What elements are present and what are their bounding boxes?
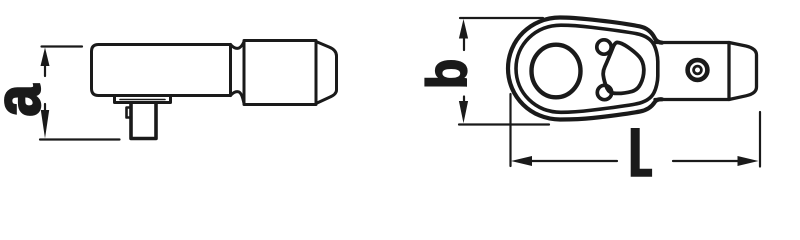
side view: end cap: [316, 42, 337, 104]
dimension L: right arrowhead: [738, 156, 759, 166]
dimension L: right extension line: [759, 112, 761, 167]
top view: small hole top: [597, 40, 611, 54]
label L: [631, 128, 652, 177]
dimension L: left arrowhead: [511, 156, 532, 166]
side view: square drive tang: [131, 103, 156, 139]
top view: pin hole inner: [694, 66, 702, 74]
dimension b: top extension line: [460, 17, 543, 19]
dimension L: left line segment: [519, 160, 617, 162]
svg-text:b: b: [417, 59, 478, 89]
top view: shank tip: [729, 43, 757, 100]
dimension b: down arrowhead: [459, 101, 468, 123]
side view: ratchet body: [92, 45, 231, 96]
dimension L: left extension line: [509, 94, 511, 166]
dimension a: upper dim line: [44, 58, 46, 76]
dimension a: down arrowhead: [41, 110, 49, 139]
dimension b: upper dim line: [463, 30, 465, 50]
top view: pin hole outer: [688, 60, 708, 80]
top view: head outer outline: [508, 18, 662, 120]
dimension b: bottom extension line: [459, 123, 549, 125]
top view: reverse lever (rounded triangle): [603, 42, 644, 93]
side view: neck: [231, 42, 245, 49]
dimension b: lower dim line: [463, 97, 465, 108]
dimension b: up arrowhead: [459, 19, 468, 39]
top view: shank: [655, 43, 729, 100]
dimension a: top extension line: [42, 45, 83, 47]
dimension a: lower dim line: [44, 104, 46, 118]
side view: mount step: [115, 96, 171, 103]
dimension L: right line segment: [673, 160, 750, 162]
top view: head inner outline: [516, 25, 658, 112]
dimension a: bottom extension line: [40, 138, 120, 140]
top view: drive opening (big circle): [532, 45, 581, 98]
dimension a: up arrowhead: [41, 48, 50, 67]
side view: detent nub: [127, 108, 132, 118]
svg-text:a: a: [0, 84, 53, 116]
side view: collar: [244, 41, 316, 105]
top view: small hole bottom: [597, 85, 611, 99]
side view: step inner line: [120, 99, 165, 101]
